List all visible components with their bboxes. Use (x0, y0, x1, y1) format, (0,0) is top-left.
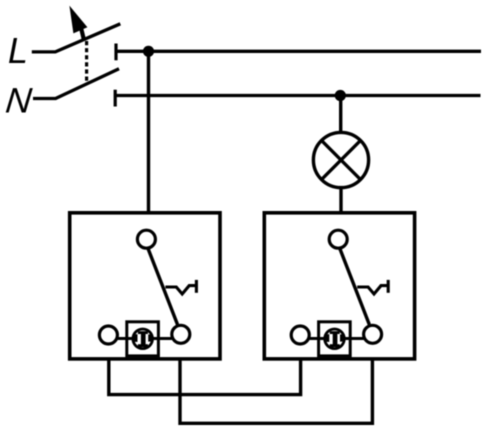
svg-text:N: N (4, 81, 34, 121)
svg-text:L: L (8, 30, 28, 71)
